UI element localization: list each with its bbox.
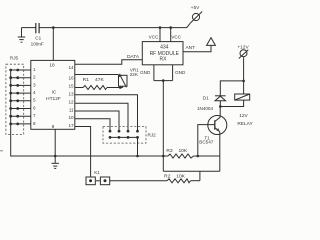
svg-text:8: 8 bbox=[33, 121, 36, 126]
svg-text:434: 434 bbox=[160, 44, 169, 50]
svg-text:12V: 12V bbox=[239, 113, 248, 119]
wire R2 up-link bbox=[199, 171, 201, 180]
svg-text:11: 11 bbox=[69, 108, 74, 113]
wire emitter return bbox=[163, 170, 220, 172]
wire K1 to R2 bbox=[110, 180, 167, 182]
svg-text:47K: 47K bbox=[95, 77, 104, 83]
svg-text:IC: IC bbox=[52, 89, 57, 95]
ground (top left, for C1) bbox=[18, 28, 25, 43]
svg-text:17: 17 bbox=[68, 123, 74, 128]
node bbox=[162, 155, 165, 158]
svg-text:22K: 22K bbox=[130, 72, 139, 77]
wire base link bbox=[198, 125, 215, 156]
diode D1 1N4004 bbox=[197, 96, 226, 112]
svg-text:VCC: VCC bbox=[171, 34, 181, 39]
svg-text:1: 1 bbox=[33, 67, 36, 72]
wire IC pin 17 to K1 bbox=[75, 127, 91, 178]
svg-text:BC547: BC547 bbox=[199, 140, 213, 145]
svg-text:10K: 10K bbox=[176, 173, 185, 179]
node bbox=[242, 80, 245, 83]
svg-text:C1: C1 bbox=[35, 35, 41, 40]
antenna AE1 bbox=[207, 38, 216, 46]
node (rail to pin 18) bbox=[52, 26, 55, 29]
wire IC pin 13 to RJ2 bbox=[75, 95, 138, 131]
connector RJ2 pins (dots) bbox=[109, 130, 139, 139]
svg-text:18: 18 bbox=[49, 63, 55, 69]
svg-text:GND: GND bbox=[140, 70, 151, 75]
ground (main) bbox=[52, 156, 59, 168]
svg-text:13: 13 bbox=[68, 91, 74, 96]
wire RJ2 to ground rail bbox=[137, 137, 139, 156]
wire ANT bbox=[183, 45, 211, 51]
wire ground bus of RJ5 bbox=[11, 70, 56, 156]
resistor R3 10K bbox=[166, 148, 193, 158]
wire RJ2 bottom bus bbox=[110, 136, 138, 138]
svg-text:+5V: +5V bbox=[191, 5, 200, 11]
jumper K1 bbox=[86, 170, 110, 185]
svg-text:7: 7 bbox=[33, 113, 36, 118]
wire VCC stub right bbox=[170, 28, 172, 42]
svg-text:5: 5 bbox=[33, 98, 36, 103]
wire IC pin 9 to ground bbox=[54, 129, 56, 156]
wire emitter bbox=[219, 132, 221, 172]
wire to diode bbox=[220, 81, 243, 96]
wire +5V rail bbox=[39, 27, 187, 29]
svg-text:HT12F: HT12F bbox=[46, 96, 61, 102]
wire module GND pins bbox=[154, 65, 173, 82]
node bbox=[219, 105, 222, 108]
wire bbox=[22, 27, 36, 29]
node bbox=[136, 155, 139, 158]
resistor R2 10K bbox=[164, 173, 200, 182]
node bbox=[197, 155, 200, 158]
svg-text:3: 3 bbox=[33, 82, 36, 87]
svg-text:RJ5: RJ5 bbox=[10, 56, 19, 61]
relay coil 12V RELAY bbox=[220, 81, 253, 127]
connector RJ5 bbox=[6, 56, 24, 135]
wire connector rows to IC pins 1-8 bbox=[11, 70, 31, 124]
wire VCC stub left bbox=[159, 28, 161, 42]
node bbox=[54, 155, 57, 158]
svg-text:RELAY: RELAY bbox=[237, 121, 253, 127]
wire link rail to emitter return bbox=[162, 156, 164, 171]
wire collector bbox=[219, 107, 221, 118]
wire DATA / pin 14 bbox=[75, 60, 143, 65]
svg-text:2: 2 bbox=[33, 75, 36, 80]
wire pin 18 bbox=[52, 28, 54, 61]
svg-text:1N4004: 1N4004 bbox=[197, 106, 214, 111]
transistor T1 BC547 bbox=[199, 116, 227, 145]
svg-text:GND: GND bbox=[175, 70, 186, 75]
svg-text:K1: K1 bbox=[94, 170, 100, 175]
IC HT12F (decoder) bbox=[31, 60, 75, 130]
svg-text:10K: 10K bbox=[178, 148, 187, 154]
node bbox=[169, 26, 172, 29]
node bbox=[159, 26, 162, 29]
svg-text:D1: D1 bbox=[203, 96, 209, 101]
svg-text:R1: R1 bbox=[83, 77, 90, 83]
+5V terminal bbox=[187, 5, 202, 28]
svg-text:4: 4 bbox=[33, 90, 36, 95]
svg-text:10: 10 bbox=[68, 115, 74, 120]
svg-text:6: 6 bbox=[33, 105, 36, 110]
capacitor C1 bbox=[31, 23, 44, 46]
wire IC pin 11 to RJ2 bbox=[75, 111, 119, 131]
RF module RX (434 MHz) bbox=[142, 42, 183, 65]
svg-text:RX: RX bbox=[160, 57, 168, 63]
wire ground rail bbox=[55, 155, 168, 157]
svg-text:15: 15 bbox=[68, 83, 74, 88]
resistor R1 47K bbox=[75, 77, 123, 89]
wire bbox=[194, 155, 220, 157]
trimmer VR1 22K bbox=[75, 67, 139, 87]
wire module GND down to rail bbox=[162, 81, 164, 156]
svg-text:100nF: 100nF bbox=[31, 41, 44, 46]
connector RJ5 pins (dots) bbox=[9, 69, 19, 126]
wire IC pin 10 to RJ2 bbox=[75, 119, 110, 131]
svg-text:12: 12 bbox=[68, 100, 74, 105]
+12V terminal bbox=[237, 44, 249, 58]
svg-text:ANT: ANT bbox=[185, 45, 195, 51]
svg-text:14: 14 bbox=[68, 65, 74, 70]
wire IC pin 12 to RJ2 bbox=[75, 103, 128, 131]
svg-text:RJ2: RJ2 bbox=[148, 133, 157, 138]
svg-text:VCC: VCC bbox=[149, 34, 159, 39]
svg-text:16: 16 bbox=[68, 75, 74, 80]
svg-text:R2: R2 bbox=[164, 173, 171, 179]
wire +12V down bbox=[243, 57, 245, 81]
svg-text:9: 9 bbox=[52, 124, 55, 130]
svg-text:R3: R3 bbox=[166, 148, 173, 154]
connector RJ2 bbox=[103, 127, 156, 144]
